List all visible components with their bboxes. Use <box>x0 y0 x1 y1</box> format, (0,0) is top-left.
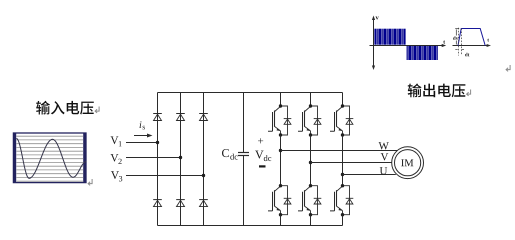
label t (pulse axis) <box>487 39 489 42</box>
paragraph mark after input label <box>95 107 99 113</box>
label i_s <box>140 121 145 129</box>
input sine wave (2 cycles) <box>16 138 86 178</box>
wire: rectifier leg 2 <box>180 93 182 226</box>
trapezoidal voltage pulse <box>458 29 485 46</box>
label V1 <box>110 136 121 146</box>
wire: inverter leg 2 (lower cell to bottom bus) <box>310 215 312 226</box>
label dt <box>465 53 469 57</box>
wire: output phase U <box>343 174 396 176</box>
label C_dc <box>222 149 238 160</box>
wire: capacitor branch upper <box>243 93 245 153</box>
label V_dc with polarity <box>255 138 271 167</box>
node: V2 junction <box>179 156 182 159</box>
wire: inverter leg 2 (top bus to upper cell) <box>310 93 312 107</box>
wire: positive DC bus (top) <box>158 92 343 94</box>
input voltage waveform panel frame <box>13 133 86 183</box>
label W <box>379 142 389 149</box>
wire: inverter leg 1 (lower cell to bottom bus) <box>280 215 282 226</box>
dashed risetime marker lines <box>459 28 462 56</box>
label dv <box>453 36 458 40</box>
label t (axis) <box>443 40 445 43</box>
label "输入电压" (input voltage) <box>36 101 94 115</box>
IGBT Q4 with freewheel diode (lower, phase W) <box>268 184 291 216</box>
IGBT Q5 with freewheel diode (lower, phase V) <box>298 184 321 216</box>
diode D3 (rectifier upper leg 3) <box>199 114 208 121</box>
node: phase V tap <box>309 161 312 164</box>
induction motor IM (inner circle) <box>395 150 421 176</box>
diode D1 (rectifier upper leg 1) <box>153 114 162 121</box>
node: phase U tap <box>341 173 344 176</box>
wire: negative DC bus (bottom) <box>158 225 343 227</box>
diode D5 (rectifier lower leg 2) <box>176 200 185 207</box>
wire: output phase V <box>311 162 392 164</box>
label IM <box>401 159 413 166</box>
label U <box>380 167 387 174</box>
diode D6 (rectifier lower leg 3) <box>199 200 208 207</box>
dv measure tick and arrows <box>455 29 459 45</box>
wire: phase input V3 <box>126 175 204 177</box>
diode D4 (rectifier lower leg 1) <box>153 200 162 207</box>
paragraph mark after input panel <box>88 179 92 185</box>
wire: inverter leg 3 midsection <box>342 135 344 186</box>
wire: phase input V2 <box>126 157 181 159</box>
induction motor IM (outer circle) <box>392 147 424 179</box>
IGBT Q6 with freewheel diode (lower, phase U) <box>330 184 353 216</box>
node: V1 junction <box>156 141 159 144</box>
output waveform vertical axis v <box>372 16 375 71</box>
output waveform time axis t <box>370 44 447 47</box>
arrow: input current i_s <box>134 134 153 138</box>
paragraph mark after output label <box>467 90 471 96</box>
label V <box>381 153 389 160</box>
label V2 <box>110 154 121 164</box>
label v (axis) <box>376 17 379 20</box>
IGBT Q2 with freewheel diode (upper, phase V) <box>298 104 321 136</box>
capacitor C_dc plates <box>238 153 249 156</box>
wire: rectifier leg 3 <box>203 93 205 226</box>
node: phase W tap <box>279 149 282 152</box>
paragraph mark (right margin) <box>506 65 510 71</box>
wire: inverter leg 3 (top bus to upper cell) <box>342 93 344 107</box>
wire: inverter leg 2 midsection <box>310 135 312 186</box>
diode D2 (rectifier upper leg 2) <box>176 114 185 121</box>
node: V3 junction <box>202 174 205 177</box>
IGBT Q1 with freewheel diode (upper, phase W) <box>268 104 291 136</box>
wire: rectifier leg 1 <box>157 93 159 226</box>
input panel grid lines <box>16 136 83 181</box>
PWM negative half-cycle block <box>406 46 438 60</box>
dt measure arrows <box>455 48 464 50</box>
label V3 <box>111 171 122 181</box>
PWM positive half-cycle block <box>374 29 405 45</box>
wire: capacitor branch lower <box>243 156 245 226</box>
wire: inverter leg 1 (top bus to upper cell) <box>280 93 282 107</box>
wire: phase input V1 <box>126 142 158 144</box>
wire: inverter leg 1 midsection <box>280 135 282 186</box>
wire: inverter leg 3 (lower cell to bottom bus) <box>342 215 344 226</box>
wire: output phase W <box>281 150 398 152</box>
label "输出电压" (output voltage) <box>408 84 466 98</box>
pulse detail time axis <box>453 44 492 47</box>
IGBT Q3 with freewheel diode (upper, phase U) <box>330 104 353 136</box>
